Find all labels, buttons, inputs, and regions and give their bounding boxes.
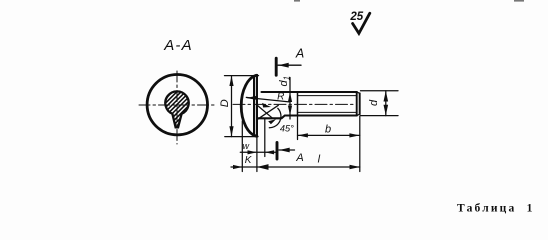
svg-text:A-A: A-A — [163, 37, 193, 54]
svg-text:A: A — [295, 152, 303, 164]
svg-text:R: R — [277, 91, 284, 102]
svg-text:A: A — [295, 46, 304, 60]
svg-text:b: b — [325, 123, 331, 135]
svg-text:d1: d1 — [278, 76, 292, 87]
svg-text:25: 25 — [349, 11, 363, 23]
svg-text:Таблица 1: Таблица 1 — [457, 203, 535, 215]
svg-text:l: l — [318, 154, 321, 166]
svg-text:45°: 45° — [280, 123, 294, 133]
svg-text:d: d — [368, 99, 380, 106]
svg-text:D: D — [219, 99, 231, 107]
svg-text:w: w — [243, 141, 250, 151]
svg-text:K: K — [245, 155, 253, 166]
